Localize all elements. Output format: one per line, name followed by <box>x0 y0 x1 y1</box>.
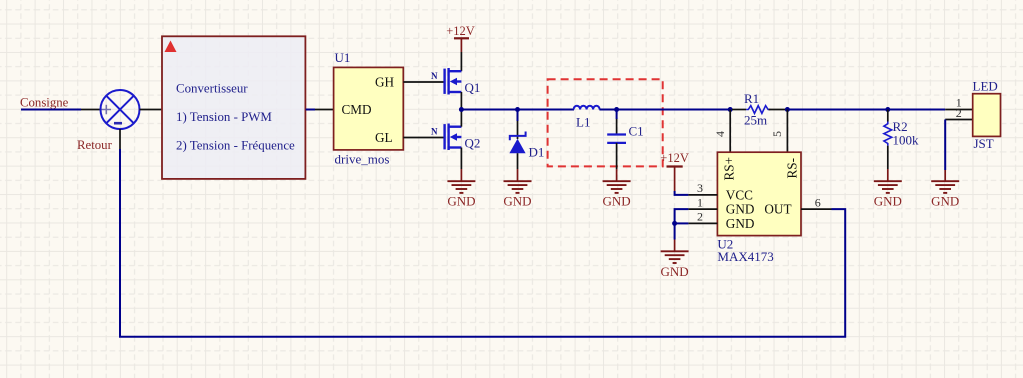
IC U2 MAX4173 body <box>717 152 801 264</box>
ground GND under R2 <box>874 169 902 209</box>
svg-text:GND: GND <box>503 194 531 209</box>
transistor Q2 <box>445 124 462 151</box>
wire LED pin2 to ground <box>944 120 946 171</box>
wire feedback (OUT to summing) <box>120 149 845 337</box>
wire main net (R1 to LED) <box>787 109 945 111</box>
svg-text:L1: L1 <box>576 115 590 130</box>
svg-text:GND: GND <box>603 194 631 209</box>
wire Convertisseur to U1 <box>306 109 315 111</box>
power +12V (top) <box>446 24 475 52</box>
svg-text:Consigne: Consigne <box>20 96 69 110</box>
wire L1 to R1 <box>599 109 732 111</box>
op-amp U1 drive_mos body <box>334 50 404 167</box>
wire Q2 source down <box>460 148 462 170</box>
svg-text:1: 1 <box>697 195 703 209</box>
wire node A net to D1 cathode <box>517 110 519 122</box>
svg-text:2) Tension - Fréquence: 2) Tension - Fréquence <box>176 138 295 152</box>
svg-text:GND: GND <box>931 194 959 209</box>
connector LED pin 2 wire <box>945 119 973 121</box>
pin 4 wire (RS+) <box>729 110 731 153</box>
svg-text:U1: U1 <box>335 50 351 65</box>
wire summing left pin <box>81 109 102 111</box>
svg-text:+12V: +12V <box>660 151 689 165</box>
resistor R1 <box>746 106 770 114</box>
svg-text:GL: GL <box>375 130 393 145</box>
wire OUT pin 6 <box>801 208 832 210</box>
svg-text:RS-: RS- <box>785 158 800 179</box>
transistor Q1 <box>445 68 462 95</box>
svg-text:2: 2 <box>956 106 962 120</box>
svg-text:drive_mos: drive_mos <box>335 152 390 167</box>
svg-text:MAX4173: MAX4173 <box>717 249 773 264</box>
svg-text:GH: GH <box>375 75 395 90</box>
svg-text:Retour: Retour <box>77 138 113 152</box>
wire R2 top lead <box>887 110 889 122</box>
svg-text:VCC: VCC <box>726 188 753 203</box>
ground GND under Q2 <box>447 169 475 209</box>
wire C1 bottom plate down <box>616 143 618 169</box>
power +12V (U2 VCC) <box>660 151 689 191</box>
svg-text:3: 3 <box>697 181 703 195</box>
wire summing bottom pin <box>119 129 121 149</box>
wire U2 ground down <box>674 223 676 239</box>
resistor R2 <box>884 122 892 146</box>
pin 5 wire (RS-) <box>786 110 788 153</box>
svg-text:6: 6 <box>815 195 821 209</box>
svg-text:2: 2 <box>697 210 703 224</box>
svg-text:LED: LED <box>973 79 998 94</box>
svg-text:GND: GND <box>661 264 689 279</box>
capacitor C1 tap junction <box>614 107 619 112</box>
wire node A to Q2 drain <box>460 110 462 127</box>
svg-text:D1: D1 <box>529 145 545 160</box>
ground GND under LED <box>931 170 959 209</box>
wire R1 right lead <box>769 109 786 111</box>
svg-text:+12V: +12V <box>446 24 475 38</box>
wire GND pin 1 <box>688 208 717 210</box>
svg-text:Q1: Q1 <box>465 80 481 95</box>
wire R2 bottom lead <box>887 146 889 169</box>
svg-text:1) Tension - PWM: 1) Tension - PWM <box>176 110 272 124</box>
svg-text:N: N <box>431 126 438 136</box>
wire +12V to VCC pin 3 <box>675 191 689 195</box>
svg-text:5: 5 <box>770 131 784 137</box>
LC filter dashed outline <box>548 79 663 166</box>
svg-text:N: N <box>431 71 438 81</box>
block Convertisseur text frame <box>162 36 305 179</box>
svg-text:GND: GND <box>726 216 755 231</box>
resistor R1 right junction <box>785 107 790 112</box>
svg-text:CMD: CMD <box>342 102 372 117</box>
diode D1 (schottky) <box>510 132 526 141</box>
wire GND pin 2 <box>688 222 717 224</box>
svg-text:Convertisseur: Convertisseur <box>176 81 248 95</box>
capacitor C1 <box>607 135 626 143</box>
svg-text:JST: JST <box>974 136 994 151</box>
inductor L1 <box>574 106 600 110</box>
wire Q1 source to node A <box>460 92 462 110</box>
svg-text:OUT: OUT <box>764 202 791 217</box>
wire D1 anode down <box>517 153 519 169</box>
svg-text:GND: GND <box>447 194 475 209</box>
node A junction dot <box>459 107 464 112</box>
diode D1 tap junction <box>515 107 520 112</box>
wire GL pin to Q2 gate <box>403 137 444 139</box>
wire Consigne net <box>21 109 81 111</box>
svg-text:Q2: Q2 <box>465 136 481 151</box>
svg-text:R1: R1 <box>744 91 759 106</box>
ground GND under D1 <box>503 169 531 209</box>
wire summing right pin <box>140 109 163 111</box>
svg-text:GND: GND <box>726 202 755 217</box>
svg-text:25m: 25m <box>744 113 767 128</box>
resistor R1 left junction <box>728 107 733 112</box>
svg-text:C1: C1 <box>629 124 644 139</box>
wire R1 left lead <box>732 109 746 111</box>
resistor R2 tap junction <box>885 107 890 112</box>
svg-text:GND: GND <box>874 194 902 209</box>
svg-text:4: 4 <box>713 131 727 137</box>
ground GND under U2 <box>661 240 689 280</box>
svg-text:RS+: RS+ <box>722 157 737 181</box>
ground GND under C1 <box>603 169 631 209</box>
svg-text:100k: 100k <box>893 133 920 148</box>
wire junction to C1 <box>616 110 618 120</box>
wire +12V to Q1 drain <box>460 52 462 71</box>
connector LED pin 1 wire <box>945 109 973 111</box>
connector LED JST body <box>973 79 1001 152</box>
summing junction <box>101 90 140 129</box>
wire CMD pin <box>315 109 334 111</box>
wire main net (node A to L1) <box>461 109 574 111</box>
wire GH pin to Q1 gate <box>403 81 444 83</box>
junction dot U2 ground <box>672 221 677 226</box>
